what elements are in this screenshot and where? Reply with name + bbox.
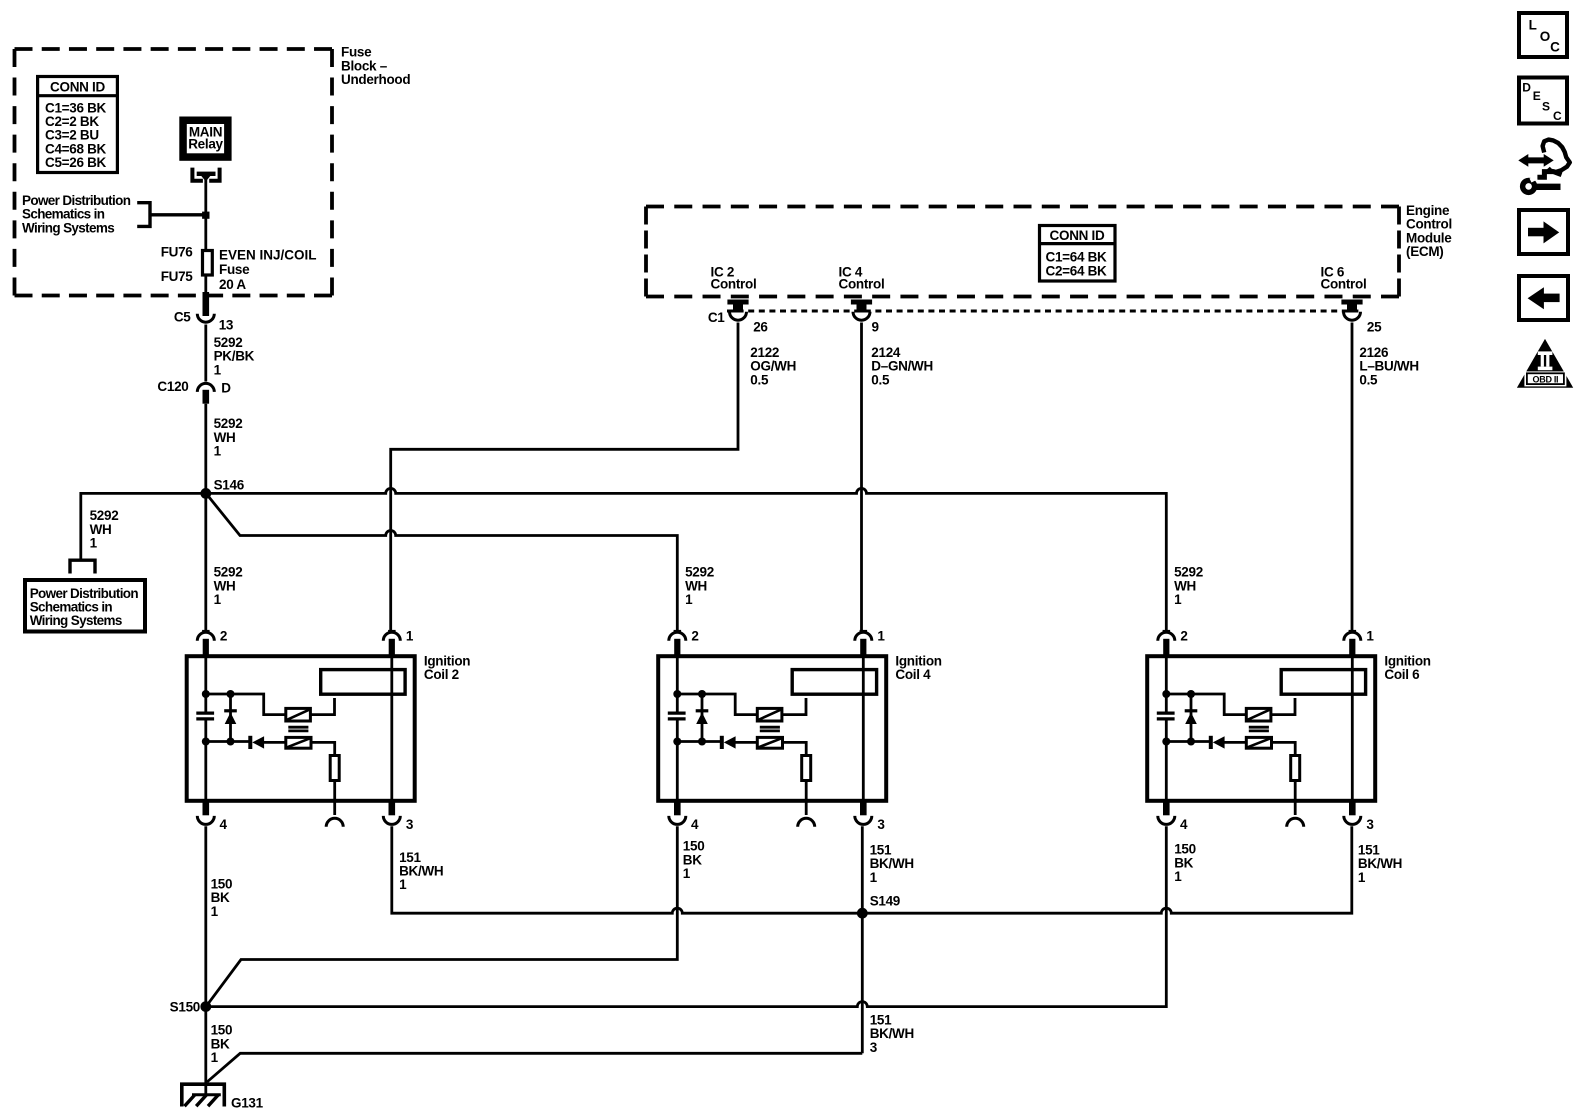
svg-text:Control: Control bbox=[711, 277, 757, 292]
wire 150 BK label (coil 2) bbox=[211, 877, 233, 919]
svg-text:1: 1 bbox=[214, 592, 222, 607]
coil 6 driver winding (upper) bbox=[1246, 708, 1271, 721]
coil 2 diode bbox=[206, 736, 286, 749]
wire: S146 to ignition coil 4 pin 2 (5292 WH) with crossover bbox=[206, 493, 677, 632]
svg-text:9: 9 bbox=[872, 319, 879, 334]
sidebar icon: schematic navigation (arrows and wrench) bbox=[1518, 140, 1570, 193]
wire 150 BK: S150 to coil 6 pin 4 bbox=[206, 826, 1167, 1006]
coil 4 driver winding (upper) bbox=[757, 708, 782, 721]
wire 151 BK/WH 3: S149 to ground bbox=[207, 1053, 862, 1082]
coil 6 pin 4 (bottom) bbox=[1158, 800, 1188, 832]
wire 5292 WH label (coil 6) bbox=[1174, 565, 1203, 607]
coil 4 wire: top rail to primary driver winding bbox=[677, 694, 756, 715]
coil 2 driver winding (lower) bbox=[286, 737, 311, 748]
svg-text:Wiring Systems: Wiring Systems bbox=[30, 613, 122, 628]
coil 4 pin 2 (top) bbox=[669, 628, 699, 654]
svg-text:OBD II: OBD II bbox=[1533, 375, 1559, 385]
coil 4 driver winding (lower) bbox=[757, 737, 782, 748]
svg-text:3: 3 bbox=[877, 817, 885, 832]
ECM pin 25 bbox=[1341, 300, 1362, 321]
coil 6 pin 2 (top) bbox=[1158, 628, 1188, 654]
svg-text:2: 2 bbox=[1180, 628, 1187, 643]
svg-text:1: 1 bbox=[870, 870, 878, 885]
coil 4 current sense resistor bbox=[783, 742, 811, 801]
bracket to power distribution reference bbox=[137, 203, 205, 227]
coil 2 current sense resistor bbox=[311, 742, 339, 801]
ignition coil 2 label bbox=[424, 654, 470, 682]
off-page connector to power distribution bbox=[70, 560, 95, 573]
svg-text:C1: C1 bbox=[708, 310, 725, 325]
CONN ID table (ECM) bbox=[1040, 226, 1116, 282]
svg-text:2: 2 bbox=[220, 628, 227, 643]
coil 6 secondary lead (pin 1 to pin 3) bbox=[1351, 655, 1354, 801]
svg-text:0.5: 0.5 bbox=[871, 372, 890, 387]
svg-text:D: D bbox=[221, 380, 231, 395]
coil 4 diode bbox=[677, 736, 757, 749]
svg-text:3: 3 bbox=[1366, 817, 1374, 832]
svg-text:S149: S149 bbox=[870, 894, 900, 909]
relay K: MAIN Relay bbox=[179, 117, 231, 161]
svg-text:1: 1 bbox=[1358, 870, 1366, 885]
junction (square) at power distribution tap bbox=[202, 212, 209, 219]
svg-text:3: 3 bbox=[406, 817, 414, 832]
coil 6 wire: upper winding to primary bbox=[1271, 698, 1295, 715]
wire 150 BK label (coil 6) bbox=[1174, 842, 1196, 884]
wire 5292 WH (C120 to S146) bbox=[204, 404, 207, 632]
connector C5, pin 13 bbox=[174, 292, 234, 332]
coil 6 wire: top rail to primary driver winding bbox=[1166, 694, 1245, 715]
sidebar icon: OBD II bbox=[1517, 339, 1573, 388]
svg-text:Control: Control bbox=[839, 277, 885, 292]
svg-text:C5=26 BK: C5=26 BK bbox=[45, 155, 107, 170]
coil 6 node (top rail) bbox=[1162, 690, 1170, 698]
coil 4 pin 4 (bottom) bbox=[669, 800, 699, 832]
sidebar icon: forward arrow bbox=[1519, 210, 1568, 254]
coil 2 pin 3 (bottom) bbox=[383, 800, 414, 832]
reference box: Power Distribution Schematics in Wiring Systems (bottom) bbox=[25, 580, 145, 632]
coil 6 spark plug terminal bbox=[1287, 800, 1304, 827]
connector C120, cavity D bbox=[157, 379, 231, 403]
coil 2 suppression capacitor bbox=[196, 713, 214, 719]
svg-text:Fuse: Fuse bbox=[219, 262, 250, 277]
ECM pin 26 (C1) bbox=[727, 300, 748, 321]
svg-text:0.5: 0.5 bbox=[750, 372, 769, 387]
svg-text:C: C bbox=[1553, 109, 1562, 123]
wire 2122 OG/WH: IC 2 control to coil 2 pin 1 bbox=[391, 323, 738, 633]
coil 2 pin 1 (top) bbox=[383, 628, 414, 654]
coil 4 internal supply rail (pin 2 to pin 4) bbox=[676, 655, 679, 801]
splice S150 bbox=[170, 1000, 212, 1015]
svg-text:20 A: 20 A bbox=[219, 277, 246, 292]
svg-text:D: D bbox=[1522, 81, 1531, 95]
coil 2 node (top rail) bbox=[202, 690, 210, 698]
relay output terminal bracket bbox=[190, 168, 221, 182]
coil 6 node (bottom rail) bbox=[1162, 738, 1170, 746]
svg-text:1: 1 bbox=[211, 1050, 219, 1065]
svg-text:Relay: Relay bbox=[188, 137, 223, 152]
coil 6 suppression capacitor bbox=[1157, 713, 1175, 719]
svg-text:Coil 2: Coil 2 bbox=[424, 667, 459, 682]
coil 6 transformer core bbox=[1249, 727, 1269, 731]
wire 150 BK: coil 2 pin 4 through S150 to G131 bbox=[204, 826, 207, 1096]
svg-text:C5: C5 bbox=[174, 310, 191, 325]
wire: fuse to C5 bbox=[204, 275, 207, 293]
svg-text:S: S bbox=[1542, 99, 1550, 113]
coil 4 suppression capacitor bbox=[668, 713, 686, 719]
coil 4 zener clamp branch bbox=[696, 690, 709, 746]
coil 6 zener clamp branch bbox=[1185, 690, 1198, 746]
svg-text:1: 1 bbox=[685, 592, 693, 607]
svg-text:E: E bbox=[1533, 89, 1541, 103]
svg-text:2: 2 bbox=[691, 628, 698, 643]
coil 2 zener clamp branch bbox=[224, 690, 237, 746]
coil 6 pin 1 (top) bbox=[1344, 628, 1375, 654]
svg-text:O: O bbox=[1540, 29, 1550, 44]
svg-text:Underhood: Underhood bbox=[341, 72, 410, 87]
coil 6 driver winding (lower) bbox=[1246, 737, 1271, 748]
coil 2 internal supply rail (pin 2 to pin 4) bbox=[204, 655, 207, 801]
coil 4 spark plug terminal bbox=[798, 800, 815, 827]
coil 2 secondary lead (pin 1 to pin 3) bbox=[390, 655, 393, 801]
wire 2126 L-BU/WH: IC 6 control to coil 6 pin 1 bbox=[1351, 323, 1354, 633]
svg-text:1: 1 bbox=[214, 362, 222, 377]
wire 151 BK/WH: coil 2 pin 3 to S149 to coil 6 pin 3 bbox=[392, 826, 1352, 913]
coil 4 node (top rail) bbox=[673, 690, 681, 698]
svg-text:FU75: FU75 bbox=[161, 269, 194, 284]
svg-text:3: 3 bbox=[870, 1040, 878, 1055]
svg-text:Wiring Systems: Wiring Systems bbox=[22, 220, 114, 235]
ECM label bbox=[1406, 203, 1452, 259]
coil 2 primary winding (to plug) bbox=[321, 670, 405, 695]
splice S149 bbox=[857, 894, 900, 919]
svg-text:Control: Control bbox=[1321, 277, 1367, 292]
svg-text:(ECM): (ECM) bbox=[1406, 244, 1444, 259]
svg-text:1: 1 bbox=[90, 536, 98, 551]
coil 2 node (bottom rail) bbox=[202, 738, 210, 746]
wire: relay to fuse bbox=[204, 176, 207, 250]
ECM internal driver labels bbox=[711, 264, 757, 291]
ignition coil 6 assembly bbox=[1147, 628, 1375, 832]
ignition coil 4 assembly bbox=[658, 628, 886, 832]
svg-text:Coil 6: Coil 6 bbox=[1384, 667, 1420, 682]
coil 4 pin 1 (top) bbox=[855, 628, 886, 654]
coil 2 pin 4 (bottom) bbox=[197, 800, 227, 832]
coil 4 pin 3 (bottom) bbox=[855, 800, 886, 832]
coil 4 secondary lead (pin 1 to pin 3) bbox=[862, 655, 865, 801]
svg-text:S146: S146 bbox=[214, 477, 245, 492]
svg-text:1: 1 bbox=[399, 877, 407, 892]
svg-text:13: 13 bbox=[219, 317, 234, 332]
svg-text:4: 4 bbox=[1180, 817, 1188, 832]
svg-text:4: 4 bbox=[691, 817, 699, 832]
wire: S146 to ignition coil 6 pin 2 (5292 WH) with crossovers bbox=[206, 488, 1166, 632]
CONN ID table (fuse block) bbox=[38, 77, 118, 173]
coil 2 transformer core bbox=[288, 727, 308, 731]
sidebar icon: DESC bbox=[1519, 78, 1567, 124]
svg-text:1: 1 bbox=[683, 866, 691, 881]
svg-text:1: 1 bbox=[1174, 592, 1182, 607]
ignition coil 4 label bbox=[895, 654, 941, 682]
coil 6 case bbox=[1147, 656, 1375, 801]
fuse block label bbox=[341, 45, 410, 87]
coil 2 spark plug terminal bbox=[326, 800, 343, 827]
ground G131 bbox=[182, 1084, 264, 1110]
svg-text:C1=64 BK: C1=64 BK bbox=[1046, 249, 1108, 264]
sidebar icon: back arrow bbox=[1519, 276, 1568, 320]
svg-text:1: 1 bbox=[877, 628, 885, 643]
svg-text:S150: S150 bbox=[170, 1000, 200, 1015]
svg-text:FU76: FU76 bbox=[161, 244, 194, 259]
svg-text:1: 1 bbox=[406, 628, 414, 643]
ECM connector C1 boundary (dotted) bbox=[727, 310, 1362, 313]
coil 2 driver winding (upper) bbox=[286, 708, 311, 721]
coil 6 diode bbox=[1166, 736, 1246, 749]
splice S146 bbox=[200, 477, 244, 498]
coil 4 primary winding (to plug) bbox=[792, 670, 876, 695]
svg-text:C: C bbox=[1550, 40, 1560, 55]
coil 4 node (bottom rail) bbox=[673, 738, 681, 746]
coil 4 transformer core bbox=[760, 727, 780, 731]
svg-text:25: 25 bbox=[1367, 319, 1382, 334]
ignition coil 6 label bbox=[1384, 654, 1430, 682]
svg-text:Coil 4: Coil 4 bbox=[895, 667, 931, 682]
wire 150 BK: coil 4 pin 4 to S150 bbox=[206, 826, 677, 1006]
svg-text:C120: C120 bbox=[157, 379, 188, 394]
svg-text:L: L bbox=[1529, 17, 1537, 32]
svg-text:0.5: 0.5 bbox=[1359, 372, 1378, 387]
fuse block - underhood (dashed enclosure) bbox=[15, 49, 333, 296]
coil 2 wire: top rail to primary driver winding bbox=[206, 694, 285, 715]
coil 6 internal supply rail (pin 2 to pin 4) bbox=[1165, 655, 1168, 801]
engine control module (ECM) dashed enclosure bbox=[646, 207, 1399, 297]
wire 5292 PK/BK bbox=[204, 325, 207, 382]
svg-text:CONN ID: CONN ID bbox=[1050, 228, 1105, 243]
wire 5292 WH label (coil 2) bbox=[214, 565, 243, 607]
coil 4 wire: upper winding to primary bbox=[782, 698, 806, 715]
svg-text:1: 1 bbox=[211, 904, 219, 919]
wire: S146 left branch to power distribution bbox=[81, 493, 206, 558]
sidebar icon: LOC bbox=[1519, 13, 1567, 57]
svg-text:C2=64 BK: C2=64 BK bbox=[1046, 264, 1108, 279]
fuse FU76/FU75: EVEN INJ/COIL Fuse 20 A bbox=[203, 251, 213, 276]
coil 6 primary winding (to plug) bbox=[1281, 670, 1365, 695]
ignition coil 2 assembly bbox=[187, 628, 415, 832]
svg-text:1: 1 bbox=[1366, 628, 1374, 643]
svg-text:26: 26 bbox=[753, 319, 768, 334]
svg-text:1: 1 bbox=[1174, 869, 1182, 884]
coil 2 pin 2 (top) bbox=[197, 628, 227, 654]
coil 6 pin 3 (bottom) bbox=[1344, 800, 1375, 832]
svg-text:G131: G131 bbox=[231, 1095, 264, 1110]
coil 2 case bbox=[187, 656, 415, 801]
coil 2 wire: upper winding to primary bbox=[310, 698, 334, 715]
wire: coil 4 pin 3 through S149 down bbox=[861, 826, 864, 1053]
wire 2124 D-GN/WH: IC 4 control to coil 4 pin 1 bbox=[860, 323, 863, 633]
svg-text:EVEN INJ/COIL: EVEN INJ/COIL bbox=[219, 248, 317, 263]
reference: Power Distribution Schematics in Wiring Systems (top) bbox=[22, 193, 131, 235]
coil 6 current sense resistor bbox=[1272, 742, 1300, 801]
wire 5292 WH label (coil 4) bbox=[685, 565, 714, 607]
coil 4 case bbox=[658, 656, 886, 801]
svg-text:1: 1 bbox=[214, 444, 222, 459]
svg-text:4: 4 bbox=[220, 817, 228, 832]
svg-text:CONN ID: CONN ID bbox=[50, 80, 105, 95]
ECM pin 9 bbox=[851, 300, 872, 321]
